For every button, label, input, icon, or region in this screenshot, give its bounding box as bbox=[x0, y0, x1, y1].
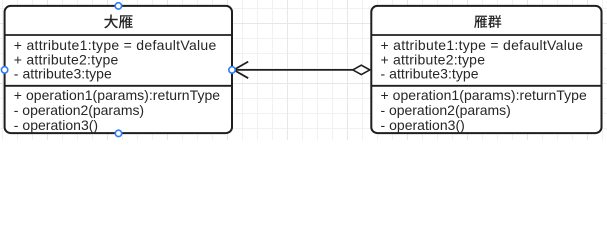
open arrowhead at 大雁 end bbox=[234, 62, 249, 79]
operation2 (大雁) bbox=[14, 102, 144, 118]
divider title/attributes (雁群) bbox=[371, 34, 601, 36]
svg-text:+ operation1(params):returnTyp: + operation1(params):returnType bbox=[381, 87, 588, 103]
canvas background bbox=[0, 0, 607, 140]
class title 大雁 bbox=[104, 15, 133, 29]
aggregation connector wire 雁群→大雁 bbox=[234, 69, 353, 71]
class title 雁群 bbox=[474, 15, 501, 28]
operation2 (雁群) bbox=[381, 102, 511, 118]
class box 雁群 bbox=[371, 6, 601, 133]
svg-text:- operation3(): - operation3() bbox=[381, 117, 465, 133]
connection handle bottom (大雁) bbox=[115, 130, 121, 136]
svg-text:- operation3(): - operation3() bbox=[14, 117, 98, 133]
attribute3 (大雁) bbox=[14, 66, 112, 82]
attribute1 (雁群) bbox=[381, 37, 584, 53]
svg-text:- operation2(params): - operation2(params) bbox=[381, 102, 511, 118]
attribute1 (大雁) bbox=[14, 37, 217, 53]
divider attributes/operations (大雁) bbox=[5, 85, 232, 87]
svg-text:- attribute3:type: - attribute3:type bbox=[381, 66, 479, 82]
operation3 (雁群) bbox=[381, 117, 465, 133]
class box 大雁 bbox=[5, 6, 232, 133]
operation1 (大雁) bbox=[14, 87, 221, 103]
attribute3 (雁群) bbox=[381, 66, 479, 82]
connection handle right / connector endpoint (大雁) bbox=[229, 67, 235, 73]
svg-text:+ operation1(params):returnTyp: + operation1(params):returnType bbox=[14, 87, 221, 103]
operation3 (大雁) bbox=[14, 117, 98, 133]
svg-text:- attribute3:type: - attribute3:type bbox=[14, 66, 112, 82]
operation1 (雁群) bbox=[381, 87, 588, 103]
divider attributes/operations (雁群) bbox=[371, 85, 601, 87]
svg-text:- operation2(params): - operation2(params) bbox=[14, 102, 144, 118]
divider title/attributes (大雁) bbox=[5, 34, 232, 36]
attribute2 (大雁) bbox=[14, 51, 119, 67]
connection handle left (大雁) bbox=[1, 67, 7, 73]
connection handle top (大雁) bbox=[115, 3, 121, 9]
attribute2 (雁群) bbox=[381, 51, 486, 67]
open diamond at 雁群 end bbox=[353, 65, 370, 74]
